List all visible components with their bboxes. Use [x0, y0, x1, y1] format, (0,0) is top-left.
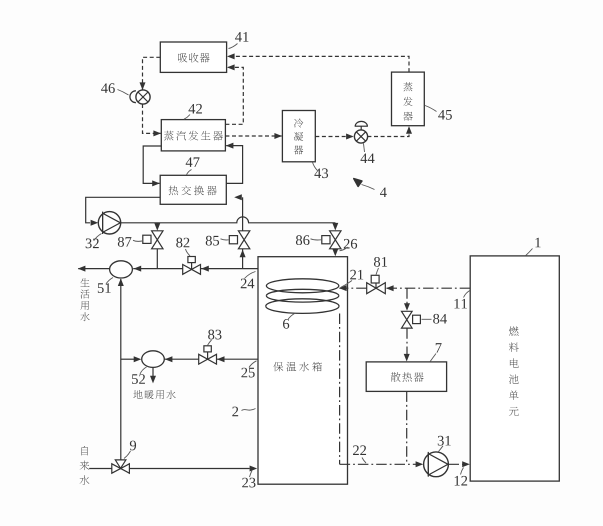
wire ellipse51 outlet left	[78, 266, 110, 272]
wire cold riser valve9 to ellipse51	[118, 278, 124, 460]
wire valve85 bottom to pipe 24	[240, 249, 246, 269]
label 52	[132, 367, 146, 384]
absorber box 41	[160, 42, 226, 72]
label 6	[283, 313, 295, 329]
wire dashed valve46 to 42-left	[143, 104, 162, 136]
valve 84	[402, 311, 421, 328]
wire tap water inlet	[89, 468, 111, 470]
label 26	[340, 239, 358, 251]
solenoid valve 44	[354, 121, 368, 143]
label 47	[186, 157, 200, 174]
wire riser 47-lower-right to valve 85	[234, 194, 242, 230]
wire pipe 24 valve82 to ellipse 51	[133, 266, 183, 272]
wire dashdot 11 fuel-cell to valve81	[386, 285, 470, 291]
wire dashdot valve81 to coil 21	[339, 285, 367, 291]
label 31	[438, 436, 451, 452]
label 41	[229, 32, 249, 48]
mixing tee 52	[142, 351, 165, 368]
wire dashed 42-right to condenser 43	[225, 133, 282, 139]
wire ellipse52 down outlet	[150, 367, 156, 383]
label 25	[241, 361, 256, 378]
wire valve9 to tank port 23	[130, 466, 258, 472]
label 21	[341, 270, 364, 288]
pump 32	[98, 212, 120, 234]
label 85	[206, 236, 229, 246]
fuel cell unit box 1	[470, 256, 559, 481]
three-way valve 9	[112, 460, 130, 473]
label 51	[98, 278, 113, 293]
wire dashdot 22 to pump 31	[340, 461, 424, 467]
radiator box 7	[366, 362, 446, 392]
label 81	[374, 257, 387, 275]
solenoid valve 46	[130, 90, 150, 104]
wire 47 lower-left to pump 32	[86, 197, 161, 226]
wire pipe 25 valve83 to tank	[217, 356, 259, 362]
mixing tee 51	[110, 261, 133, 278]
text domestic hot water (vertical)	[80, 278, 89, 321]
wire dashed 42-right to 41-right (solution return)	[225, 64, 243, 124]
hot water tank box 2	[258, 257, 348, 485]
wire pipe 24 tank to valve82	[201, 266, 258, 272]
label 4 pointer	[354, 179, 387, 197]
wire dashed valve44 to evaporator 45 bottom	[367, 126, 412, 136]
wire pipe 25 ellipse52 to valve83	[164, 356, 198, 362]
label 46	[101, 83, 128, 95]
wire dashdot radiator to line 22	[406, 391, 408, 464]
label 22	[353, 445, 366, 463]
label 9	[124, 441, 136, 459]
wire valve87 to pipe 24	[156, 249, 158, 269]
label 42	[184, 104, 202, 119]
wire dashdot branch down to valve 84	[404, 288, 410, 311]
label 43	[313, 162, 329, 178]
heating coil 6 inside tank	[266, 279, 339, 314]
label 84	[422, 314, 447, 324]
label 23	[242, 471, 255, 488]
wire dashdot 22 coil down inside tank	[339, 314, 341, 465]
label 45	[425, 106, 452, 120]
label 11	[454, 291, 469, 309]
wire dashed 41-left to valve46	[140, 57, 161, 90]
wire drop pump-line to valve 87	[154, 223, 160, 231]
wire dashed 43-right to valve 44	[315, 134, 353, 140]
label 12	[455, 468, 467, 486]
label 87	[118, 237, 142, 247]
text floor heating water	[133, 390, 175, 399]
wire pipe 25 riser to ellipse52	[121, 356, 142, 362]
wire pump32 output main line	[121, 217, 336, 223]
valve 83	[199, 346, 217, 364]
valve 86	[322, 231, 341, 249]
label 32	[86, 234, 102, 249]
wire 47-right loop up to 42-right	[226, 143, 243, 184]
label 7	[430, 343, 442, 362]
wire dashdot valve84 to radiator 7	[404, 328, 410, 361]
label 2	[232, 407, 255, 417]
wire dashdot pump31 to fuel-cell 12	[449, 461, 470, 467]
label 24	[241, 272, 256, 289]
heat exchanger box 47	[160, 175, 226, 204]
text tap water (vertical)	[80, 446, 90, 485]
wire dashed 45-top to 41-right	[227, 53, 409, 72]
label 44	[360, 144, 374, 164]
wire drop to valve 86	[332, 223, 338, 231]
evaporator box 45	[392, 72, 425, 126]
steam generator box 42	[161, 120, 225, 151]
valve 81	[367, 275, 386, 293]
valve 87	[143, 231, 163, 249]
label 1	[526, 238, 541, 256]
valve 85	[229, 231, 250, 249]
wire valve86 to tank top	[332, 249, 338, 257]
pump 31	[424, 452, 449, 477]
wire 42-left loop down to 47-left	[143, 146, 161, 186]
label 86	[296, 235, 321, 245]
label 82	[176, 238, 190, 256]
condenser box 43	[282, 111, 315, 162]
valve 82	[183, 257, 201, 275]
label 83	[208, 330, 222, 346]
